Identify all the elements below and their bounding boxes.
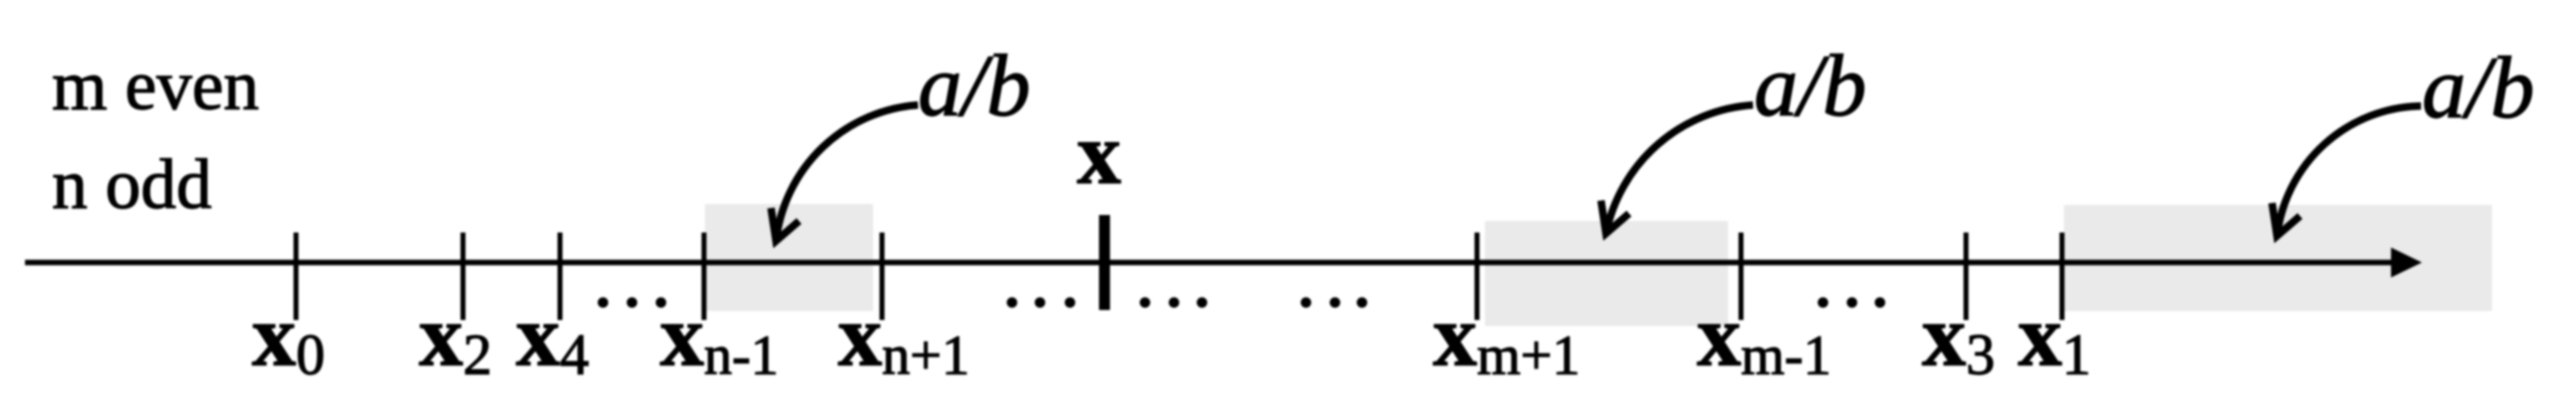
svg-text:xm-1: xm-1 <box>1697 288 1831 387</box>
svg-text:a/b: a/b <box>918 38 1030 135</box>
shaded interval a/b right of x_1 <box>2064 205 2492 311</box>
svg-text:x4: x4 <box>516 288 589 387</box>
ellipsis dots right of bold tick x <box>1140 297 1208 308</box>
ellipsis dots between x_{m-1} and x3 <box>1818 297 1886 308</box>
tick x3 <box>1964 233 1969 321</box>
tick x2 <box>461 233 466 321</box>
tick x0 <box>294 233 299 321</box>
svg-text:x0: x0 <box>252 288 325 387</box>
ellipsis dots left of x_{m+1} <box>1301 297 1368 308</box>
arrowhead of first curved arrow <box>771 208 799 241</box>
tick x1 <box>2060 233 2065 321</box>
tick x_{m+1} <box>1475 233 1480 321</box>
tick x_{n-1} <box>702 233 707 321</box>
arrowhead of second curved arrow <box>1601 201 1629 234</box>
svg-text:x: x <box>1077 106 1121 203</box>
tick x_{n+1} <box>880 233 885 321</box>
tick x_{m-1} <box>1739 233 1744 321</box>
bold tick at x <box>1099 215 1110 310</box>
svg-text:x2: x2 <box>419 288 492 387</box>
number line arrowhead <box>2391 248 2422 278</box>
shaded interval a/b between x_{m+1} and x_{m-1} <box>1485 221 1728 326</box>
ellipsis dots between x4 and x_{n-1} <box>598 297 667 308</box>
svg-text:a/b: a/b <box>1754 38 1866 135</box>
svg-text:m even: m even <box>52 47 259 125</box>
shaded interval a/b between x_{n-1} and x_{n+1} <box>705 204 873 311</box>
svg-text:n odd: n odd <box>52 146 212 224</box>
tick x4 <box>558 233 563 321</box>
ellipsis dots left of bold tick x <box>1007 297 1076 308</box>
svg-text:x3: x3 <box>1922 288 1995 387</box>
svg-text:a/b: a/b <box>2422 40 2534 137</box>
arrowhead of third curved arrow <box>2272 203 2300 236</box>
curved arrow to second interval <box>1606 105 1753 234</box>
curved arrow to first interval <box>776 105 918 241</box>
svg-text:xn+1: xn+1 <box>838 288 970 387</box>
curved arrow to third interval <box>2277 106 2421 236</box>
number line <box>25 260 2396 266</box>
